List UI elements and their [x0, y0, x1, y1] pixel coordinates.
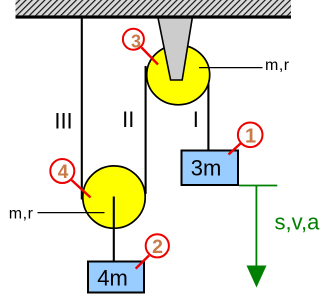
svg-text:m,r: m,r [9, 206, 34, 223]
svg-text:4m: 4m [97, 266, 128, 291]
svg-text:m,r: m,r [265, 57, 290, 74]
svg-text:s,v,a: s,v,a [275, 210, 321, 235]
svg-text:3: 3 [131, 31, 141, 51]
svg-text:2: 2 [152, 236, 163, 258]
svg-text:1: 1 [245, 126, 256, 148]
svg-text:I: I [193, 107, 199, 132]
svg-text:III: III [54, 108, 72, 133]
svg-text:3m: 3m [191, 155, 222, 180]
svg-text:4: 4 [58, 162, 69, 183]
svg-text:II: II [122, 107, 134, 132]
